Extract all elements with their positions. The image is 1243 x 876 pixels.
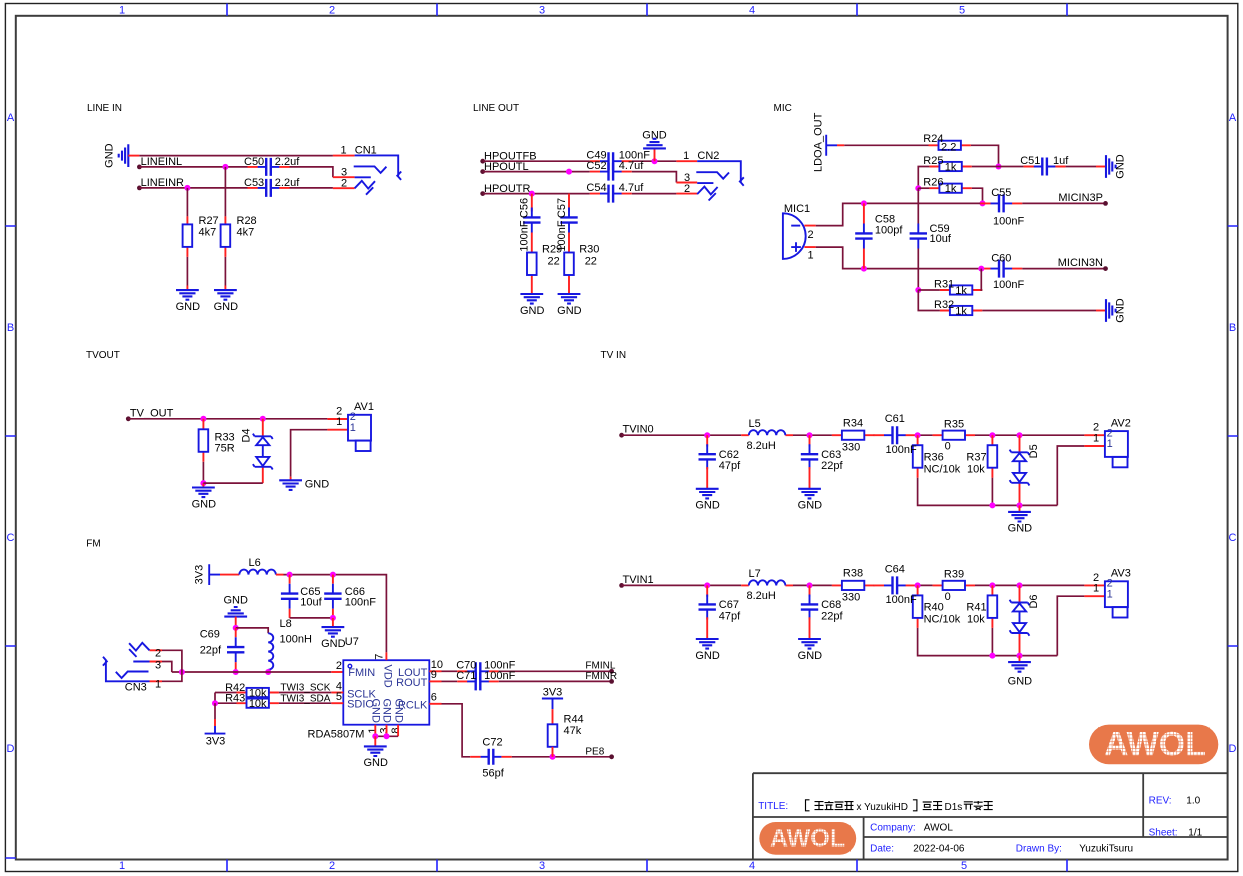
- ground above CN2: [654, 149, 656, 162]
- resistor R38 330: [832, 584, 874, 586]
- junction R31 left: [915, 287, 921, 293]
- junction R33/D4 gnd: [200, 480, 206, 486]
- node MICIN3P: [1103, 201, 1108, 206]
- svg-text:22pf: 22pf: [200, 645, 222, 657]
- svg-text:TVIN0: TVIN0: [623, 424, 654, 436]
- svg-text:C: C: [7, 532, 15, 544]
- wire TVIN0 to L5: [622, 434, 742, 436]
- ground under U7: [374, 736, 376, 746]
- capacitor C55 100nF: [980, 202, 1022, 204]
- junction LINEINR/R27: [184, 185, 190, 191]
- svg-text:1: 1: [1093, 583, 1099, 595]
- resistor R31 1k: [918, 289, 940, 291]
- svg-text:LDOA_OUT: LDOA_OUT: [813, 112, 825, 172]
- wire R40 to rail: [918, 628, 1058, 656]
- wire R26 right to MICIN3P: [972, 188, 983, 203]
- svg-text:56pf: 56pf: [482, 768, 504, 780]
- wire R36 to rail: [918, 478, 1058, 506]
- resistor R43 10k: [215, 693, 237, 704]
- resistor R39 0: [933, 584, 975, 586]
- wire C49 to CN2 pin1: [632, 160, 677, 162]
- svg-text:MIC1: MIC1: [784, 203, 810, 215]
- wire HPOUTR to C54: [483, 193, 590, 195]
- svg-text:330: 330: [842, 592, 860, 604]
- junction C63: [807, 432, 813, 438]
- svg-text:100nF: 100nF: [886, 594, 917, 606]
- svg-text:2.2uf: 2.2uf: [275, 177, 300, 189]
- resistor R42 10k: [215, 692, 237, 694]
- left ticks: [5, 226, 15, 858]
- wire junction to C51: [999, 166, 1024, 168]
- wire C54 to CN2 pin2: [632, 193, 677, 195]
- connector AV1: [327, 419, 348, 430]
- wire C64 to R39: [916, 584, 933, 586]
- connector AV2: [1084, 435, 1105, 446]
- wire LINEINL to C50: [139, 166, 247, 168]
- junction R31 right / MICIN3N: [978, 266, 984, 272]
- svg-text:TWI3_SCK: TWI3_SCK: [280, 683, 330, 694]
- capacitor C68 22pf: [809, 585, 811, 596]
- wire R27 to GND: [186, 257, 188, 286]
- svg-text:C72: C72: [482, 736, 502, 748]
- junction R36: [915, 432, 921, 438]
- U7 pin1 indicator circle: [348, 664, 352, 668]
- svg-text:R39: R39: [944, 569, 964, 581]
- wire TVIN1 to L7: [622, 584, 742, 586]
- svg-text:C61: C61: [885, 413, 905, 425]
- svg-text:1.0: 1.0: [1186, 796, 1200, 807]
- node TVIN0: [619, 433, 624, 438]
- junction C67: [704, 582, 710, 588]
- svg-text:x YuzukiHD: x YuzukiHD: [857, 802, 909, 813]
- svg-text:GND: GND: [176, 301, 201, 313]
- junction R41 bottom: [989, 653, 995, 659]
- svg-text:10uf: 10uf: [930, 233, 952, 245]
- wire R29 to GND: [531, 285, 533, 294]
- junction HPOUTL/C57: [566, 169, 572, 175]
- svg-text:LINE IN: LINE IN: [87, 103, 122, 114]
- svg-text:22pf: 22pf: [821, 460, 843, 472]
- svg-text:C54: C54: [586, 182, 606, 194]
- ground right of C51: [1106, 155, 1116, 178]
- ground under C68: [798, 639, 821, 649]
- wire rail to AV3 pin1: [1057, 596, 1084, 655]
- inductor L7 8.2uH: [741, 584, 793, 586]
- junction GND/CN2 pin1: [652, 158, 658, 164]
- svg-text:GND: GND: [1115, 298, 1127, 323]
- svg-text:AV1: AV1: [354, 401, 374, 413]
- svg-text:1: 1: [1107, 588, 1113, 600]
- svg-text:75R: 75R: [215, 443, 235, 455]
- svg-text:3: 3: [539, 860, 545, 872]
- svg-text:4.7uf: 4.7uf: [619, 160, 644, 172]
- wire R28 to GND: [224, 257, 226, 286]
- net TWI3_SDA: [279, 702, 331, 704]
- svg-text:1: 1: [1093, 432, 1099, 444]
- svg-text:R34: R34: [843, 417, 863, 429]
- wire LINEINR to C53: [139, 187, 247, 189]
- svg-text:0: 0: [945, 441, 951, 453]
- connector CN2 headphone jack: [676, 161, 697, 193]
- junction LINEINL/R28: [222, 164, 228, 170]
- svg-text:R37: R37: [966, 451, 986, 463]
- capacitor C52 4.7uf: [590, 171, 632, 173]
- capacitor C58 100pf: [863, 203, 865, 268]
- svg-text:TVIN1: TVIN1: [623, 574, 654, 586]
- svg-text:R40: R40: [924, 602, 944, 614]
- svg-text:1: 1: [367, 727, 379, 733]
- ground under R29: [520, 294, 543, 304]
- svg-text:1: 1: [336, 416, 342, 428]
- node PE8: [609, 754, 614, 759]
- ground under C66: [332, 618, 334, 627]
- svg-text:3V3: 3V3: [194, 565, 206, 585]
- svg-text:C71: C71: [456, 670, 476, 682]
- svg-text:5: 5: [959, 5, 965, 17]
- resistor R25 1k: [929, 166, 971, 168]
- wire GND net to CN1 pin1: [139, 155, 333, 157]
- svg-text:5: 5: [961, 860, 967, 872]
- capacitor C72 56pf: [470, 756, 512, 758]
- svg-text:6: 6: [431, 692, 437, 704]
- svg-text:REV:: REV:: [1149, 796, 1172, 807]
- capacitor C60 100nF: [980, 268, 1022, 270]
- svg-text:B: B: [1229, 322, 1236, 334]
- svg-text:4.7uf: 4.7uf: [619, 182, 644, 194]
- node MICIN3N: [1103, 266, 1108, 271]
- svg-text:0: 0: [945, 591, 951, 603]
- svg-text:GND: GND: [214, 301, 239, 313]
- svg-text:4k7: 4k7: [237, 227, 255, 239]
- wire junction to L8 top: [236, 628, 269, 633]
- svg-text:GND: GND: [695, 500, 720, 512]
- capacitor C57 100nF vertical: [568, 194, 570, 212]
- svg-text:7: 7: [374, 654, 386, 660]
- svg-text:2: 2: [336, 660, 342, 672]
- svg-text:10uf: 10uf: [300, 597, 322, 609]
- junction R37 bottom: [989, 502, 995, 508]
- svg-text:C67: C67: [719, 599, 739, 611]
- capacitor C66 100nF: [332, 575, 334, 584]
- capacitor C59 10uf: [917, 188, 919, 223]
- small AWOL logo: [759, 822, 856, 855]
- capacitor C67 47pf: [706, 585, 708, 596]
- svg-text:100nF: 100nF: [519, 220, 531, 251]
- svg-text:TWI3_SDA: TWI3_SDA: [280, 693, 330, 704]
- svg-text:D: D: [7, 743, 15, 755]
- svg-text:R31: R31: [934, 278, 954, 290]
- wire R35 to D5: [975, 434, 1084, 436]
- junction R41 top: [989, 582, 995, 588]
- svg-text:R28: R28: [237, 215, 257, 227]
- title text CJK: [806, 800, 854, 811]
- svg-text:1: 1: [119, 5, 125, 17]
- wire L7 to R38: [793, 584, 832, 586]
- resistor R28 4k7: [224, 167, 226, 217]
- wire C52 to CN2 pin3: [632, 172, 677, 183]
- svg-text:GND: GND: [798, 650, 823, 662]
- svg-text:22pf: 22pf: [821, 610, 843, 622]
- svg-text:1k: 1k: [955, 305, 967, 317]
- resistor R37 10k: [991, 435, 993, 478]
- junction C62: [704, 432, 710, 438]
- node HPOUTL: [480, 169, 485, 174]
- wire R25 right: [972, 166, 999, 168]
- wire HPOUTL to C52: [483, 171, 590, 173]
- ground under R30: [558, 294, 581, 304]
- svg-text:GND: GND: [104, 143, 116, 168]
- ground under R33: [192, 488, 215, 498]
- ground under D5: [1019, 505, 1021, 511]
- svg-text:1: 1: [808, 250, 814, 262]
- resistor R32 1k: [918, 290, 940, 311]
- capacitor C63 22pf: [809, 435, 811, 446]
- svg-text:R35: R35: [944, 418, 964, 430]
- diode D6 TVS: [1019, 585, 1021, 655]
- net port LDOA_OUT: [826, 135, 837, 156]
- svg-text:GND: GND: [363, 757, 388, 769]
- resistor R29 22: [531, 233, 533, 286]
- resistor R27 4k7: [186, 188, 188, 217]
- junction CN3: [179, 669, 185, 675]
- resistor R41 10k: [991, 585, 993, 628]
- wire U7 gnd pins rail: [375, 735, 398, 737]
- wire C51 to GND: [1066, 166, 1096, 168]
- svg-text:2: 2: [341, 178, 347, 190]
- svg-text:100nF: 100nF: [993, 215, 1024, 227]
- svg-text:GND: GND: [305, 479, 330, 491]
- wire C65/C66 gnd rail: [290, 617, 333, 619]
- svg-text:U7: U7: [345, 636, 359, 648]
- connector CN3 headphone jack: [150, 650, 163, 681]
- wire R38 to C64: [873, 584, 876, 586]
- svg-text:AV3: AV3: [1111, 568, 1131, 580]
- svg-text:2: 2: [684, 183, 690, 195]
- wire C61 to R35: [916, 434, 933, 436]
- resistor R34 330: [832, 434, 874, 436]
- wire D4 to R33 gnd rail: [203, 482, 262, 484]
- wire R39 to D6: [975, 584, 1084, 586]
- resistor R44 47k: [548, 724, 558, 747]
- wire L5 to R34: [793, 434, 832, 436]
- junction C69 bottom: [233, 669, 239, 675]
- svg-text:GND: GND: [223, 595, 248, 607]
- svg-text:R41: R41: [966, 602, 986, 614]
- node LINEINR: [137, 186, 142, 191]
- svg-text:1k: 1k: [945, 161, 957, 173]
- svg-text:ROUT: ROUT: [396, 677, 427, 689]
- svg-text:VDD: VDD: [381, 665, 393, 688]
- svg-text:Company:: Company:: [870, 822, 916, 833]
- wire R32 to GND: [982, 310, 1096, 312]
- svg-text:4: 4: [749, 5, 755, 17]
- diode D4 TVS: [262, 419, 264, 483]
- svg-text:MICIN3N: MICIN3N: [1058, 257, 1103, 269]
- node TVIN1: [619, 583, 624, 588]
- title block frame: [753, 773, 1228, 859]
- wire C50 to CN1 pin3: [290, 167, 333, 177]
- svg-text:L5: L5: [749, 418, 761, 430]
- ground under R27: [176, 290, 199, 300]
- svg-text:2.2: 2.2: [941, 141, 956, 153]
- junction C66: [330, 572, 336, 578]
- node TV_OUT: [126, 416, 131, 421]
- svg-text:GND: GND: [392, 699, 404, 724]
- junction R43/3V3: [212, 700, 218, 706]
- svg-text:9: 9: [431, 669, 437, 681]
- svg-text:GND: GND: [520, 305, 545, 317]
- svg-text:R30: R30: [579, 243, 599, 255]
- net FMINL: [499, 670, 612, 672]
- junction C55 left: [980, 200, 986, 206]
- junction C58 top: [861, 200, 867, 206]
- ground under D6: [1019, 656, 1021, 662]
- svg-text:8: 8: [390, 727, 402, 733]
- wire rail to AV2 pin1: [1057, 446, 1084, 505]
- svg-text:1k: 1k: [955, 285, 967, 297]
- capacitor C71 100nF: [442, 680, 458, 682]
- wire C72 to PE8: [512, 756, 612, 758]
- capacitor C50 2.2uf: [248, 166, 290, 168]
- svg-text:1uf: 1uf: [1053, 155, 1069, 167]
- junction D5 top: [1017, 432, 1023, 438]
- svg-text:3: 3: [378, 727, 390, 733]
- svg-text:4: 4: [749, 860, 755, 872]
- svg-text:R27: R27: [199, 215, 219, 227]
- ground under C63: [798, 489, 821, 499]
- capacitor C62 47pf: [706, 435, 708, 446]
- svg-text:C55: C55: [991, 187, 1011, 199]
- svg-text:D1s: D1s: [945, 802, 963, 813]
- capacitor C49 100nF: [590, 160, 632, 162]
- svg-text:100nF: 100nF: [484, 670, 515, 682]
- svg-text:Date:: Date:: [870, 843, 894, 854]
- wire RCLK to C72: [442, 704, 471, 757]
- junction C68: [807, 582, 813, 588]
- svg-text:D6: D6: [1028, 594, 1040, 608]
- U7 pin 7 VDD: [385, 652, 387, 660]
- svg-text:8.2uH: 8.2uH: [747, 440, 776, 452]
- net FMINR: [499, 680, 612, 682]
- wire R33 to GND rail: [202, 462, 204, 483]
- svg-text:L6: L6: [249, 557, 261, 569]
- resistor R30 22: [568, 233, 570, 286]
- resistor R40 NC/10k: [917, 585, 919, 628]
- svg-text:4k7: 4k7: [199, 227, 217, 239]
- svg-text:GND: GND: [192, 498, 217, 510]
- svg-text:TVOUT: TVOUT: [86, 350, 120, 361]
- power 3V3 left: [209, 564, 220, 585]
- svg-text:100nF: 100nF: [556, 220, 568, 251]
- svg-text:1: 1: [1107, 438, 1113, 450]
- top ticks: [227, 4, 1067, 16]
- junction C65: [287, 572, 293, 578]
- svg-text:GND: GND: [1115, 154, 1127, 179]
- microphone MIC1: [783, 213, 806, 259]
- svg-text:100nF: 100nF: [345, 597, 376, 609]
- svg-text:C63: C63: [821, 449, 841, 461]
- wire C53 to CN1 pin2: [290, 187, 333, 189]
- svg-text:Sheet:: Sheet:: [1149, 827, 1178, 838]
- svg-text:L8: L8: [280, 618, 292, 630]
- svg-text:Drawn By:: Drawn By:: [1016, 843, 1062, 854]
- capacitor C69 22pf: [235, 628, 237, 637]
- svg-text:C69: C69: [200, 629, 220, 641]
- wire R31 to MICIN3N: [981, 269, 982, 290]
- svg-text:8.2uH: 8.2uH: [747, 590, 776, 602]
- svg-text:3V3: 3V3: [206, 736, 226, 748]
- junction HPOUTR/C56: [529, 191, 535, 197]
- svg-text:A: A: [7, 112, 15, 124]
- right ticks: [1228, 226, 1238, 646]
- junction D5 bottom: [1017, 502, 1023, 508]
- svg-text:1: 1: [683, 150, 689, 162]
- svg-text:MIC: MIC: [774, 103, 792, 114]
- svg-text:2.2uf: 2.2uf: [275, 156, 300, 168]
- capacitor C51 1uf: [1024, 166, 1066, 168]
- svg-text:FM: FM: [86, 539, 100, 550]
- svg-text:R32: R32: [934, 299, 954, 311]
- svg-text:GND: GND: [1008, 523, 1033, 535]
- svg-text:B: B: [7, 322, 14, 334]
- svg-text:C52: C52: [586, 160, 606, 172]
- svg-text:3V3: 3V3: [543, 687, 563, 699]
- resistor R35 0: [933, 434, 975, 436]
- junction R33: [200, 416, 206, 422]
- node HPOUTFB: [480, 159, 485, 164]
- ground AV1: [279, 480, 302, 490]
- svg-text:47pf: 47pf: [719, 610, 741, 622]
- junction L8 bottom: [265, 669, 271, 675]
- capacitor C54 4.7uf: [590, 193, 632, 195]
- capacitor C70 100nF: [442, 670, 458, 672]
- svg-text:C57: C57: [556, 198, 568, 218]
- svg-text:C62: C62: [719, 449, 739, 461]
- svg-text:R44: R44: [564, 714, 584, 726]
- wire R34 to C61: [873, 434, 876, 436]
- svg-text:TV_OUT: TV_OUT: [130, 408, 174, 420]
- svg-text:10k: 10k: [967, 463, 985, 475]
- svg-text:PE8: PE8: [585, 747, 604, 758]
- svg-text:AV2: AV2: [1111, 417, 1131, 429]
- big AWOL logo: [1089, 725, 1218, 765]
- svg-text:C64: C64: [885, 563, 905, 575]
- inductor L8 100nH: [268, 633, 273, 670]
- svg-text:100pf: 100pf: [875, 225, 903, 237]
- svg-text:3: 3: [155, 659, 161, 671]
- wire C55 to MICIN3P: [1022, 202, 1105, 204]
- wire C60 to MICIN3N: [1022, 268, 1105, 270]
- svg-text:1: 1: [155, 679, 161, 691]
- node LINEINL: [137, 165, 142, 170]
- wire R30 to GND: [568, 285, 570, 294]
- svg-text:R33: R33: [215, 431, 235, 443]
- svg-text:100nH: 100nH: [280, 634, 312, 646]
- svg-text:1k: 1k: [945, 183, 957, 195]
- svg-text:RDA5807M: RDA5807M: [308, 729, 365, 741]
- svg-text:D4: D4: [240, 428, 252, 442]
- svg-text:R36: R36: [924, 451, 944, 463]
- svg-text:R26: R26: [923, 177, 943, 189]
- svg-text:CN1: CN1: [355, 144, 377, 156]
- svg-text:1/1: 1/1: [1188, 827, 1202, 838]
- svg-text:LINE OUT: LINE OUT: [473, 103, 519, 114]
- svg-text:1: 1: [350, 422, 356, 434]
- svg-text:L7: L7: [749, 568, 761, 580]
- svg-text:100nF: 100nF: [886, 444, 917, 456]
- svg-text:100nF: 100nF: [993, 279, 1024, 291]
- wire R24 to junction: [971, 145, 999, 166]
